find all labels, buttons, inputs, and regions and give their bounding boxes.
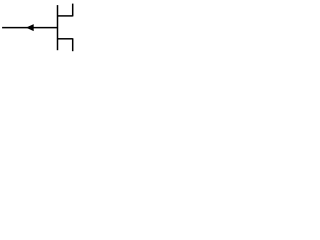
wire drain horizontal xyxy=(58,15,73,17)
wire source vertical xyxy=(72,38,74,51)
wire source horizontal xyxy=(58,38,73,40)
transistor Q1 (P-channel JFET symbol) xyxy=(0,0,82,56)
wire gate lead xyxy=(2,27,57,29)
gate arrowhead xyxy=(26,24,34,31)
wire drain vertical xyxy=(72,4,74,17)
channel bar xyxy=(57,5,59,50)
